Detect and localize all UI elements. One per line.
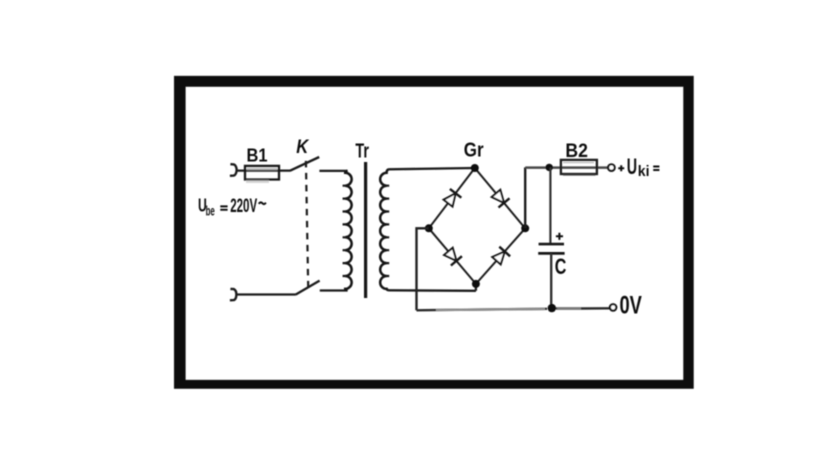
- switch K pole 2 blade: [296, 281, 320, 295]
- svg-text:B1: B1: [247, 145, 268, 166]
- node bridge bottom: [472, 280, 480, 288]
- capacitor C: [538, 233, 564, 308]
- wire: [320, 289, 348, 291]
- bridge rectifier Gr arms: [429, 168, 525, 284]
- transformer Tr secondary winding: [380, 169, 389, 290]
- svg-text:K: K: [296, 136, 310, 158]
- label +Uki dc: [618, 154, 659, 180]
- wire: [237, 170, 290, 172]
- node bridge right: [521, 224, 529, 232]
- wire: [417, 228, 429, 310]
- label Ube=220V~: [198, 195, 266, 219]
- node junction top rail: [546, 164, 553, 171]
- fuse B2: [561, 160, 597, 175]
- diode D1: [444, 189, 462, 207]
- svg-text:ki: ki: [638, 164, 650, 180]
- svg-text:Gr: Gr: [464, 140, 484, 162]
- diode D2: [492, 190, 510, 208]
- wire: [319, 170, 347, 172]
- wire: [549, 168, 551, 243]
- terminal output +: [608, 164, 615, 171]
- svg-text:C: C: [555, 254, 567, 279]
- svg-text:B2: B2: [565, 141, 588, 162]
- svg-text:220V: 220V: [230, 195, 257, 217]
- transformer Tr primary winding: [343, 171, 352, 291]
- wire: [436, 309, 545, 310]
- diode D3: [444, 248, 462, 266]
- fuse B1: [245, 166, 279, 183]
- svg-text:U: U: [627, 154, 637, 179]
- node bridge left: [425, 224, 433, 232]
- node junction bottom rail: [548, 304, 556, 312]
- wire: [237, 293, 296, 295]
- terminal input bottom: [230, 289, 236, 300]
- transformer Tr core: [364, 162, 367, 298]
- svg-text:0V: 0V: [620, 292, 643, 320]
- terminal output 0V: [610, 304, 616, 310]
- wire: [557, 307, 581, 309]
- switch K linkage (dashed): [306, 161, 308, 287]
- terminal input top: [230, 164, 237, 176]
- wire: [389, 168, 475, 169]
- wire: [524, 167, 526, 228]
- wire: [525, 166, 608, 169]
- wire: [417, 308, 611, 310]
- wire: [389, 284, 476, 291]
- diode D4: [492, 247, 510, 265]
- node bridge top: [471, 164, 479, 172]
- svg-text:be: be: [206, 203, 215, 218]
- switch K pole 1 blade: [290, 157, 319, 171]
- svg-text:Tr: Tr: [355, 140, 369, 162]
